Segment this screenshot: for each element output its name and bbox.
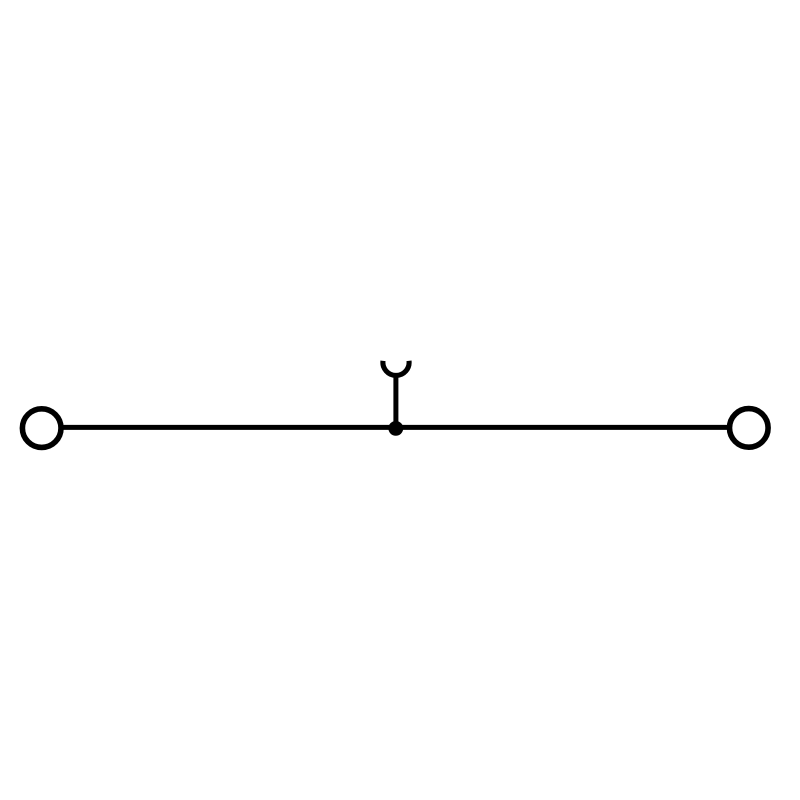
terminal circle right — [730, 409, 769, 448]
test tap socket arc — [383, 361, 409, 376]
terminal circle left — [22, 409, 61, 448]
wire (test tap stem) — [393, 375, 398, 429]
junction node — [388, 421, 403, 436]
wire — [61, 425, 730, 430]
